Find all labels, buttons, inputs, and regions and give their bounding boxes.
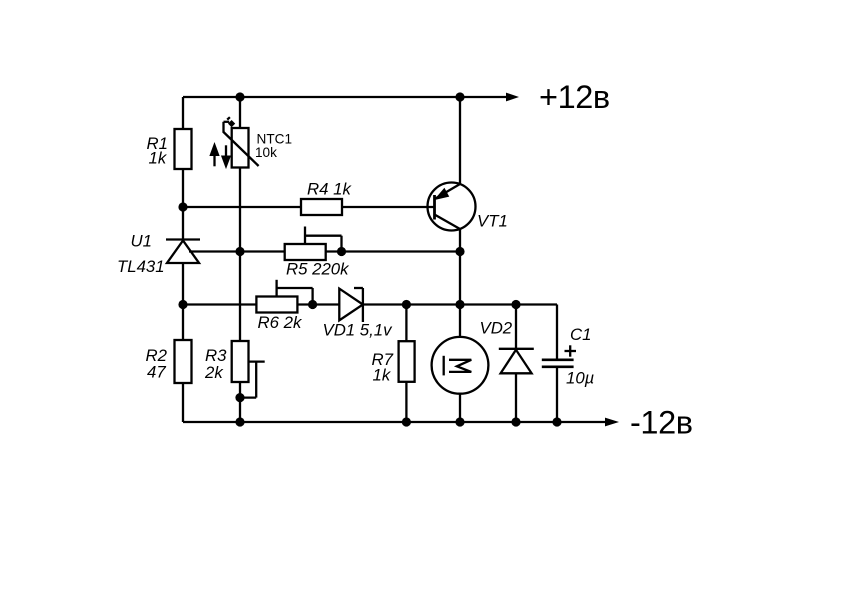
label R2 [146,346,168,382]
wire left rail bottom [182,383,184,422]
node top bus NTC junction [235,92,244,101]
resistor R2 [175,340,192,383]
wire NTC rail top [239,97,241,128]
node bottom bus VD2 junction [511,417,520,426]
diode VD2 [499,305,534,423]
svg-text:R6 2k: R6 2k [258,313,303,332]
NTC down arrow [223,145,230,166]
wire top bus [183,96,507,98]
label R3 [204,346,227,382]
svg-text:1k: 1k [149,149,168,168]
op-amp U1 TL431 [166,240,200,264]
resistor R4 [301,199,342,215]
resistor R7 [399,341,415,382]
svg-text:U1: U1 [131,232,152,251]
node left rail R6 junction [178,300,187,309]
capacitor C1 [542,305,576,423]
resistor R3 [232,341,249,382]
svg-text:2k: 2k [204,363,224,382]
svg-text:VD1 5,1v: VD1 5,1v [323,321,394,340]
svg-text:C1: C1 [570,325,591,344]
svg-text:10k: 10k [255,145,277,160]
transistor Q VT1 [428,183,476,231]
svg-text:R5 220k: R5 220k [286,260,350,279]
wire R3 bottom [239,382,241,422]
node ref row NTC junction [235,247,244,256]
node R5 wiper junction [337,247,346,256]
label NTC1 value [255,132,292,161]
wire emitter down [459,229,461,337]
wire bottom bus [183,421,606,423]
wire R7 bottom [405,382,407,422]
resistor R1 [175,129,192,169]
label R7 [372,350,394,385]
node motor top junction [455,300,464,309]
svg-text:1k: 1k [373,366,392,385]
node R1 bottom junction [178,202,187,211]
wire NTC rail mid [239,168,241,342]
wire R6 to VD1 [297,303,339,305]
potentiometer R5 [285,227,342,261]
wire R7 top [405,305,407,342]
svg-text:R4 1k: R4 1k [307,179,352,198]
diode VD1 [339,288,363,322]
wire left rail mid [182,263,184,340]
arrowhead -12 [605,418,619,427]
node R6 wiper junction [308,300,317,309]
node R3 wiper junction [235,393,244,402]
svg-text:+12в: +12в [539,79,610,115]
arrowhead +12 [506,93,519,102]
wire R5 row right [326,250,460,252]
svg-text:10µ: 10µ [566,369,594,388]
svg-text:TL431: TL431 [117,257,165,276]
svg-text:-12в: -12в [630,405,693,441]
wire R6 row left [183,303,256,305]
wire left rail top [182,97,184,129]
potentiometer R6 [256,280,312,313]
wire R6 row right [363,303,557,305]
wire motor bottom [459,394,461,422]
node bottom bus motor junction [455,417,464,426]
wire R3 wiper [240,362,265,398]
wire R4 to base [342,206,435,208]
svg-text:47: 47 [147,363,166,382]
wire R1 bottom [182,169,184,239]
label U1 [117,232,165,277]
wire R4 row [183,206,301,208]
node R7 top junction [402,300,411,309]
wire R5 row left [189,250,285,252]
node bottom bus R7 junction [402,417,411,426]
NTC up arrow [211,145,218,166]
node VD2 top junction [511,300,520,309]
wire collector up [459,97,461,184]
thermistor NTC1 [224,117,259,167]
label R1 [147,134,168,168]
node bottom bus C1 junction [552,417,561,426]
motor M [432,337,489,394]
node bottom bus R3 junction [235,417,244,426]
svg-text:VT1: VT1 [477,212,508,231]
node top bus collector junction [455,92,464,101]
node emitter junction [455,247,464,256]
svg-text:VD2: VD2 [480,319,513,338]
